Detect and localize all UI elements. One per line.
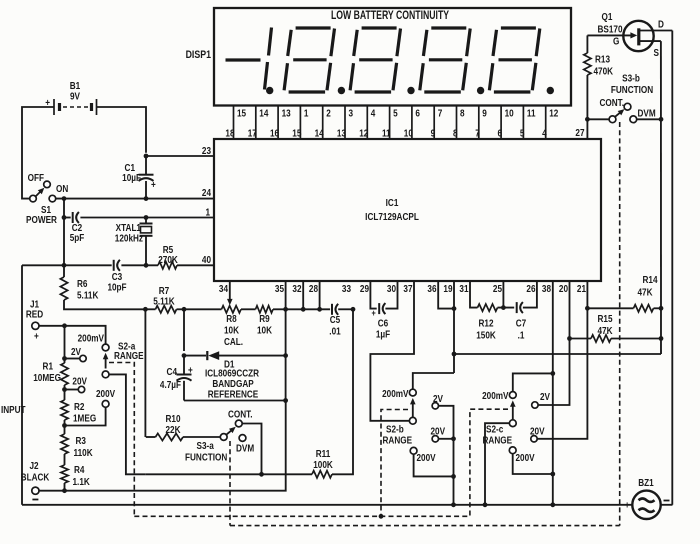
svg-text:15: 15 xyxy=(237,108,246,119)
label R11 xyxy=(316,448,331,459)
svg-text:R10: R10 xyxy=(165,413,180,424)
pin 32 label xyxy=(292,283,301,294)
svg-text:20: 20 xyxy=(559,283,568,294)
pin 23 label xyxy=(202,145,211,156)
svg-text:200V: 200V xyxy=(516,452,536,463)
terminal S2-b 200V xyxy=(410,447,417,454)
label 4.7uF xyxy=(160,379,181,390)
svg-text:FUNCTION: FUNCTION xyxy=(185,452,227,463)
junction sense line left xyxy=(452,352,457,357)
svg-text:+: + xyxy=(151,179,156,190)
label ON xyxy=(56,183,68,194)
pin 26 label xyxy=(526,283,535,294)
svg-text:200V: 200V xyxy=(96,388,116,399)
label G xyxy=(613,36,619,47)
wire 200V tap to circle xyxy=(65,407,106,425)
svg-text:1: 1 xyxy=(205,207,210,218)
switch S2-a 200mV contact xyxy=(102,344,109,351)
svg-text:1.1K: 1.1K xyxy=(73,476,91,487)
svg-text:S2-c: S2-c xyxy=(486,424,503,435)
resistor R11 100K xyxy=(312,471,332,478)
label R8 10K xyxy=(224,325,239,336)
terminal S2-c 2V xyxy=(532,402,538,408)
label R15 47K xyxy=(597,325,612,336)
svg-text:.01: .01 xyxy=(329,326,340,337)
diode D1 top line xyxy=(184,355,286,357)
svg-text:CONT.: CONT. xyxy=(599,97,624,108)
display decimal point #5 xyxy=(547,87,554,94)
pin 19 wire down xyxy=(453,281,455,373)
label D xyxy=(658,19,664,30)
wire common line to R8 xyxy=(184,308,222,310)
label 100K xyxy=(313,459,333,470)
svg-text:5: 5 xyxy=(393,108,398,119)
junction pin 33 xyxy=(351,307,356,312)
junction C1 top xyxy=(144,154,149,159)
diode D1 symbol xyxy=(207,351,219,360)
pin 28 label xyxy=(309,283,318,294)
svg-text:XTAL1: XTAL1 xyxy=(116,222,141,233)
junction J1 node xyxy=(62,323,67,328)
switch S3-b CONT contact xyxy=(624,103,631,110)
wire S2-a common to function line xyxy=(109,374,146,474)
label R7 5.11K xyxy=(153,296,175,307)
svg-text:ICL7129ACPL: ICL7129ACPL xyxy=(365,211,419,222)
label C1 10uF xyxy=(122,172,141,183)
divider wire J1 to 2V tap xyxy=(64,326,66,363)
C6 plus sign xyxy=(371,308,375,318)
display pin numbers top row xyxy=(237,108,558,119)
label R14 xyxy=(642,274,658,285)
pin 28 wire xyxy=(319,281,321,309)
C1 plus sign xyxy=(151,179,156,190)
terminal S2-c 200V xyxy=(509,447,516,454)
label 20V S2-a xyxy=(72,376,87,387)
display digit 8 #2 xyxy=(350,28,400,92)
label R12 xyxy=(478,318,493,329)
pin 40 label xyxy=(202,254,211,265)
switch S2-b 200mV contact xyxy=(409,389,416,396)
junction R7 left xyxy=(143,307,148,312)
label R5 xyxy=(163,244,173,255)
battery B1 9V symbol xyxy=(54,99,97,115)
label 1uF xyxy=(376,329,391,340)
svg-text:BANDGAP: BANDGAP xyxy=(212,378,253,389)
junction S2-b 20V xyxy=(451,436,456,441)
junction D1 right xyxy=(283,353,288,358)
wire pin 37 to S2-b common xyxy=(370,281,414,421)
junction S2 linkage xyxy=(379,514,384,519)
svg-text:100K: 100K xyxy=(313,459,333,470)
junction S2-c common ground xyxy=(483,502,488,507)
resistor R2 1MEG xyxy=(61,400,68,420)
label POWER xyxy=(26,214,57,225)
label R6 5.11K xyxy=(77,290,99,301)
capacitor C6 1uF with pin 29/30 loop xyxy=(370,281,397,314)
label C3 xyxy=(112,271,122,282)
resistor R10 22K xyxy=(146,433,220,440)
svg-text:R6: R6 xyxy=(77,278,87,289)
svg-text:10pF: 10pF xyxy=(107,282,126,293)
wire function line to R11 xyxy=(146,473,312,475)
svg-text:RANGE: RANGE xyxy=(383,435,413,446)
wire pin 1 line xyxy=(64,217,214,219)
capacitor C1 10uF xyxy=(139,156,154,199)
svg-text:OFF: OFF xyxy=(28,172,45,183)
display pin cell separators xyxy=(234,106,546,139)
svg-text:9V: 9V xyxy=(70,91,81,102)
label INPUT xyxy=(1,404,26,415)
svg-text:RANGE: RANGE xyxy=(483,435,513,446)
wire pin19 node to S2-b 200mV xyxy=(413,373,454,389)
wire R2 to R3 xyxy=(64,420,66,434)
svg-text:.1: .1 xyxy=(518,330,525,341)
svg-text:7: 7 xyxy=(438,108,443,119)
wire battery left to S1 xyxy=(22,107,54,199)
svg-text:29: 29 xyxy=(360,283,369,294)
label DISP1 xyxy=(186,49,212,61)
svg-text:3: 3 xyxy=(349,108,354,119)
svg-text:200mV: 200mV xyxy=(382,388,409,399)
svg-text:4.7µF: 4.7µF xyxy=(160,379,181,390)
svg-text:DVM: DVM xyxy=(236,443,254,454)
junction 20V tap xyxy=(62,387,67,392)
dashed S3 gang bus xyxy=(230,525,620,527)
junction D1 left xyxy=(182,353,187,358)
bandgap reference box bottom wire xyxy=(184,400,286,402)
svg-text:8: 8 xyxy=(460,108,465,119)
junction C1 bottom xyxy=(144,196,149,201)
switch S2-b common contact xyxy=(409,417,416,424)
jack J1 RED xyxy=(32,322,39,329)
resistor R14 47K xyxy=(587,305,661,312)
wire R3 to R4 xyxy=(64,454,66,465)
svg-text:6: 6 xyxy=(415,108,420,119)
wire R4 to J2 node xyxy=(64,483,66,491)
source rail down to sense line xyxy=(660,41,662,354)
label FUNCTION S3-b xyxy=(611,84,653,95)
wire J2 line to bandgap vertical xyxy=(39,401,286,491)
svg-text:10MEG: 10MEG xyxy=(33,372,61,383)
capacitor C3 10pF xyxy=(114,260,120,271)
svg-text:36: 36 xyxy=(427,283,436,294)
label C6 xyxy=(378,318,388,329)
svg-text:ICL8069CCZR: ICL8069CCZR xyxy=(205,368,259,379)
label B1 xyxy=(70,80,80,91)
svg-text:R14: R14 xyxy=(642,274,658,285)
svg-text:11: 11 xyxy=(527,108,536,119)
svg-text:RED: RED xyxy=(26,309,44,320)
pin 38 rail to ground bus xyxy=(552,281,554,505)
label 200mV S2-c xyxy=(482,390,509,401)
pin 27 wire xyxy=(586,119,588,139)
svg-text:8: 8 xyxy=(453,128,458,139)
svg-text:2: 2 xyxy=(326,108,331,119)
svg-text:26: 26 xyxy=(526,283,535,294)
junction R13/pin27 xyxy=(585,117,590,122)
J2 minus sign xyxy=(32,499,38,501)
wire 200mV tap from J1 node xyxy=(65,326,106,344)
svg-text:12: 12 xyxy=(549,108,558,119)
junction R7 right xyxy=(182,307,187,312)
wire pin 36 to pin 19 xyxy=(438,281,454,309)
svg-text:32: 32 xyxy=(292,283,301,294)
label 200V S2-b xyxy=(417,452,437,463)
display digit 8 #3 xyxy=(420,28,470,92)
switch S2-a wiper arrow xyxy=(103,353,109,369)
switch S2-a common contact xyxy=(102,371,109,378)
pin 38 label xyxy=(542,283,551,294)
resistor R8 10K CAL xyxy=(222,306,256,313)
svg-text:CONT.: CONT. xyxy=(228,409,253,420)
svg-text:1: 1 xyxy=(304,108,309,119)
wire R11 to pin 33 xyxy=(332,309,353,474)
wire S3-a CONT to function line xyxy=(242,424,261,475)
wire pin 23 line xyxy=(146,155,214,157)
label R3 xyxy=(76,435,86,446)
switch S2-c wiper arrow xyxy=(510,400,516,419)
dashed S2 gang bus xyxy=(134,515,470,517)
display decimal point #2 xyxy=(338,87,345,94)
switch S2-b wiper arrow xyxy=(410,398,416,417)
label 2V S2-c xyxy=(540,391,551,402)
display digit 1 xyxy=(265,28,272,90)
svg-text:+: + xyxy=(34,331,39,342)
label IC1 xyxy=(386,197,399,208)
C4 plus sign xyxy=(188,365,193,376)
pin 34 wiper arrow onto R8 xyxy=(227,281,233,305)
label 22K xyxy=(165,424,180,435)
label C7 xyxy=(516,318,526,329)
svg-text:C4: C4 xyxy=(167,366,178,377)
jack J2 BLACK xyxy=(32,487,39,494)
switch S3-a CONT contact xyxy=(235,420,242,427)
svg-text:C5: C5 xyxy=(330,314,340,325)
svg-text:34: 34 xyxy=(219,283,229,294)
label R14 47K xyxy=(637,287,652,298)
label ICL7129ACPL xyxy=(365,211,419,222)
svg-text:C6: C6 xyxy=(378,318,388,329)
wire S2-c 20V to pin 21 xyxy=(537,308,587,439)
label Q1 xyxy=(602,11,613,22)
svg-text:BLACK: BLACK xyxy=(21,472,50,483)
IC U1 ICL7129ACPL body xyxy=(214,139,601,281)
label 270K xyxy=(158,254,178,265)
switch S3-b DVM contact xyxy=(630,116,637,123)
svg-text:J2: J2 xyxy=(29,460,38,471)
svg-text:10K: 10K xyxy=(224,325,239,336)
wire node down S1 to R6 xyxy=(63,199,65,277)
switch S3-a wiper arrow xyxy=(226,427,235,435)
wire R6 bottom to common line xyxy=(64,300,145,309)
label 200V S2-c xyxy=(516,452,536,463)
svg-text:13: 13 xyxy=(337,128,346,139)
label S2-b xyxy=(386,424,404,435)
wire S2-b 2V to range chain xyxy=(439,406,454,505)
svg-text:R11: R11 xyxy=(316,448,331,459)
junction J2 node xyxy=(62,488,67,493)
wire S2-c 200V xyxy=(513,454,553,474)
label S2-c xyxy=(486,424,503,435)
svg-text:12: 12 xyxy=(359,128,368,139)
wire S2-b 200V xyxy=(414,454,454,476)
pin 20 label xyxy=(559,283,568,294)
label 2V S2-a xyxy=(71,346,82,357)
svg-text:C7: C7 xyxy=(516,318,526,329)
junction C2 left xyxy=(62,215,67,220)
svg-text:40: 40 xyxy=(202,254,211,265)
svg-text:POWER: POWER xyxy=(26,214,57,225)
svg-text:S2-b: S2-b xyxy=(386,424,404,435)
svg-text:200mV: 200mV xyxy=(482,390,509,401)
resistor R12 150K with pin 31 wire xyxy=(470,281,514,311)
label R9 10K xyxy=(257,325,272,336)
display decimal point #3 xyxy=(407,87,414,94)
junction pin 32 xyxy=(301,307,306,312)
wire S2-b 20V xyxy=(439,438,454,440)
label REFERENCE xyxy=(208,389,258,400)
svg-text:DVM: DVM xyxy=(638,108,656,119)
wire S2-c common to ground bus xyxy=(485,423,509,505)
svg-text:17: 17 xyxy=(248,128,257,139)
label R10 xyxy=(165,413,180,424)
junction R15 left xyxy=(567,336,572,341)
svg-text:470K: 470K xyxy=(594,66,614,77)
wire sense line to Q1 source rail xyxy=(454,353,661,355)
terminal S2-a 20V xyxy=(78,386,84,392)
junction CONT node xyxy=(259,472,264,477)
svg-text:R1: R1 xyxy=(43,361,53,372)
label BZ1 xyxy=(638,477,653,488)
svg-text:R13: R13 xyxy=(595,54,610,65)
svg-text:R8: R8 xyxy=(226,313,236,324)
svg-text:C3: C3 xyxy=(112,271,122,282)
junction pin40/vertical xyxy=(62,263,67,268)
label S3-b xyxy=(622,73,640,84)
J1 plus sign xyxy=(34,331,39,342)
capacitor C2 5pF xyxy=(73,212,79,223)
drain rail down right side xyxy=(671,31,673,505)
terminal S2-b 2V xyxy=(432,403,438,409)
pin 34 label xyxy=(219,283,229,294)
svg-text:REFERENCE: REFERENCE xyxy=(208,389,258,400)
svg-text:BS170: BS170 xyxy=(597,24,622,35)
svg-text:30: 30 xyxy=(387,283,396,294)
label 470K xyxy=(594,66,614,77)
svg-text:20V: 20V xyxy=(530,426,545,437)
capacitor C5 .01 xyxy=(332,304,338,315)
terminal S2-c 20V xyxy=(531,436,537,442)
label R6 xyxy=(77,278,87,289)
label CONT. S3-a xyxy=(228,409,253,420)
svg-text:1µF: 1µF xyxy=(376,329,391,340)
svg-text:5: 5 xyxy=(520,128,525,139)
label R15 xyxy=(597,313,612,324)
label BLACK xyxy=(21,472,50,483)
resistor R9 10K xyxy=(256,306,286,313)
label C5 xyxy=(330,314,340,325)
junction source/DVM xyxy=(659,117,664,122)
label 150K xyxy=(476,330,496,341)
svg-text:B1: B1 xyxy=(70,80,80,91)
junction S2-c 200mV feed xyxy=(550,371,555,376)
label J1 xyxy=(30,299,39,310)
label C5 .01 xyxy=(329,326,340,337)
label R4 xyxy=(74,464,85,475)
svg-text:9: 9 xyxy=(431,128,436,139)
label 1.1K xyxy=(73,476,91,487)
svg-text:5pF: 5pF xyxy=(70,232,85,243)
svg-text:5.11K: 5.11K xyxy=(77,290,99,301)
wire S2-c 2V to pin 20 xyxy=(538,339,569,406)
pin 31 label xyxy=(459,283,468,294)
svg-text:150K: 150K xyxy=(476,330,496,341)
wire R13 node to S3-b contact xyxy=(587,118,609,120)
resistor R7 5.11K xyxy=(145,306,184,313)
label OFF xyxy=(28,172,45,183)
svg-text:2V: 2V xyxy=(433,393,444,404)
label RANGE S2-a xyxy=(114,350,144,361)
pin 20 wire xyxy=(569,281,571,339)
resistor R13 470K xyxy=(584,35,591,119)
display minus sign segment xyxy=(226,58,261,61)
switch S1 POWER xyxy=(30,181,56,202)
svg-text:120kHz: 120kHz xyxy=(115,233,144,244)
display DISP1 outline xyxy=(214,8,571,106)
terminal S2-b 20V xyxy=(432,436,438,442)
switch S3-a DVM contact xyxy=(239,435,246,442)
label R9 xyxy=(259,313,269,324)
label BS170 xyxy=(597,24,622,35)
svg-text:ON: ON xyxy=(56,183,68,194)
label RANGE S2-c xyxy=(483,435,513,446)
label R7 xyxy=(159,285,169,296)
svg-text:S: S xyxy=(654,47,659,58)
label S xyxy=(654,47,659,58)
svg-text:20V: 20V xyxy=(431,426,446,437)
svg-text:25: 25 xyxy=(493,283,502,294)
resistor R4 1.1K xyxy=(61,465,68,483)
pin 35 label xyxy=(275,283,284,294)
svg-text:IC1: IC1 xyxy=(386,197,399,208)
svg-text:10µF: 10µF xyxy=(122,172,141,183)
label DVM S3-a xyxy=(236,443,254,454)
display legend LOW BATTERY CONTINUITY xyxy=(331,10,449,23)
svg-text:R9: R9 xyxy=(259,313,269,324)
svg-text:110K: 110K xyxy=(74,447,93,458)
label CONT. S3-b xyxy=(599,97,624,108)
label C2 xyxy=(72,222,82,233)
svg-text:10K: 10K xyxy=(257,325,272,336)
wire S2-c 200mV to pin 38 rail xyxy=(513,373,553,391)
svg-text:47K: 47K xyxy=(597,325,612,336)
junction XTAL top xyxy=(144,215,149,220)
label .1 xyxy=(518,330,525,341)
dashed linkage S2-c xyxy=(470,409,508,516)
svg-text:CAL.: CAL. xyxy=(224,336,243,347)
label 110K xyxy=(74,447,93,458)
junction pin 35 xyxy=(283,307,288,312)
svg-text:INPUT: INPUT xyxy=(1,404,26,415)
svg-text:R15: R15 xyxy=(597,313,612,324)
pin 29 label xyxy=(360,283,369,294)
svg-text:28: 28 xyxy=(309,283,318,294)
svg-text:27: 27 xyxy=(575,127,584,138)
junction S1-ON node xyxy=(62,196,67,201)
wire battery right to C1 top xyxy=(97,107,147,153)
label 10MEG xyxy=(33,372,61,383)
wire D1 node down from common line xyxy=(183,309,185,351)
